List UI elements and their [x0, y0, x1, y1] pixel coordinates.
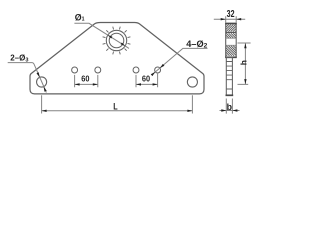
corner hole right (2-D3)	[187, 77, 197, 87]
central boss outer circle	[106, 30, 126, 50]
svg-text:L: L	[113, 101, 118, 111]
label 4-D2 leader	[153, 48, 208, 74]
dimension h	[238, 43, 251, 84]
dimension b	[220, 99, 240, 114]
dimension L	[42, 95, 193, 113]
corner hole left (2-D3)	[37, 77, 47, 87]
svg-text:b: b	[227, 102, 233, 112]
central hole D1 inner circle	[109, 33, 124, 48]
small holes 4-D2	[72, 67, 78, 73]
label 2-D3 leader	[8, 63, 47, 93]
section divider lines	[226, 31, 237, 33]
hatch band B	[226, 33, 237, 38]
section rungs	[226, 62, 232, 90]
dimension 60 (right pair)	[136, 74, 158, 88]
dimension 32	[214, 16, 245, 22]
svg-text:32: 32	[227, 9, 235, 20]
hatch band C	[226, 46, 237, 56]
svg-text:60: 60	[81, 74, 89, 84]
svg-text:60: 60	[142, 74, 150, 84]
hatch band A	[226, 24, 237, 31]
plate outline (front view)	[30, 23, 204, 94]
side view: wide boss section	[226, 24, 237, 58]
label D1 leader	[74, 23, 129, 48]
side view: thin plate section	[226, 57, 232, 95]
knurl tick marks	[103, 27, 131, 55]
svg-text:h: h	[238, 60, 248, 65]
dimension 60 (left pair)	[75, 75, 98, 87]
